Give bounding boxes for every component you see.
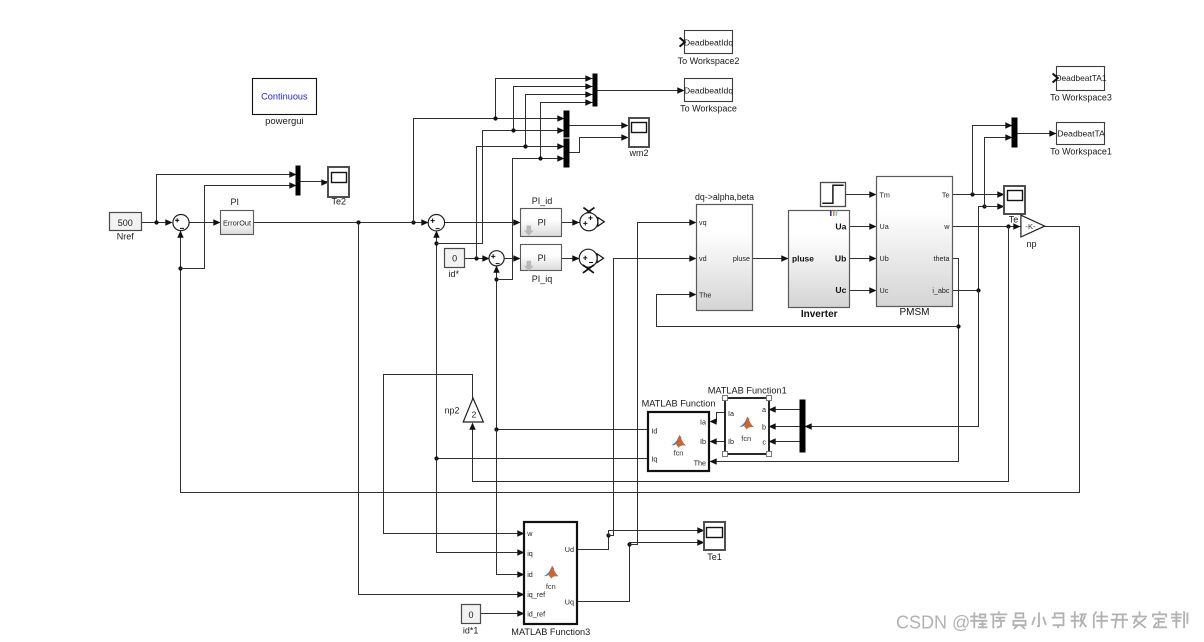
wire Inverter Ua to PMSM <box>850 223 877 229</box>
mux Te2 mux <box>296 166 300 195</box>
wire Inverter Ub to PMSM <box>850 255 877 261</box>
wire Sum1 to ErrorOut <box>189 219 221 225</box>
svg-text:Nref: Nref <box>117 232 135 242</box>
svg-text:0: 0 <box>452 254 457 264</box>
wire dq block pluse to Inverter <box>753 255 789 261</box>
sum Sum1 <box>173 215 189 231</box>
svg-text:id: id <box>527 570 533 579</box>
svg-text:-K-: -K- <box>1025 222 1036 231</box>
svg-text:w: w <box>526 529 533 538</box>
svg-text:Te: Te <box>1009 215 1019 225</box>
svg-text:PI_iq: PI_iq <box>532 274 553 284</box>
svg-text:b: b <box>762 423 766 432</box>
wire theta branch to dq block The input <box>657 291 959 326</box>
junction dot Sum1 feedback branch <box>178 266 182 270</box>
sum Sum5 with unconnected port <box>579 249 603 273</box>
junction dot riser 4 <box>538 156 542 160</box>
wire PI_id to Sum4 <box>562 219 580 225</box>
svg-text:fcn: fcn <box>741 434 751 443</box>
svg-text:MATLAB Function1: MATLAB Function1 <box>708 386 787 396</box>
svg-text:Uq: Uq <box>565 598 574 607</box>
wire Nref to Sum1 <box>142 219 173 225</box>
wire w feedback down to np2 gain input <box>469 227 1008 482</box>
wire Iq branch to speed mux B input 2 <box>437 127 565 243</box>
svg-text:DeadbeatTA: DeadbeatTA <box>1057 129 1105 139</box>
scope Te1 <box>704 522 725 562</box>
junction dot Id net sum branch <box>494 277 498 281</box>
wire Sum2 to PI_id <box>445 219 521 225</box>
block id* constant 0 <box>445 249 465 280</box>
svg-text:iq_ref: iq_ref <box>527 590 545 599</box>
junction dot ErrorOut output branch mux <box>411 220 415 224</box>
wire MATLAB Function1 Ia to MATLAB Function Ia <box>710 413 725 425</box>
block PI_iq <box>521 245 562 284</box>
junction dot i_abc net <box>976 288 980 292</box>
wire np2 gain output to MATLAB Function3 w input <box>384 375 525 537</box>
svg-text:Ia: Ia <box>728 409 734 418</box>
demux i_abc <box>800 400 805 452</box>
wire PMSM w to np gain <box>953 223 1021 229</box>
block To Workspace DeadbeatIdq <box>680 79 737 114</box>
svg-text:vq: vq <box>699 218 707 227</box>
wire Id branch to current mux C input 2 <box>497 155 565 279</box>
svg-text:Id: Id <box>651 427 657 436</box>
svg-text:MATLAB Function3: MATLAB Function3 <box>511 627 590 637</box>
block MATLAB Function3 <box>511 522 590 637</box>
wire ErrorOut output to Sum2 <box>254 219 429 225</box>
svg-text:fcn: fcn <box>546 582 556 591</box>
junction dot Uq net <box>627 542 631 546</box>
svg-text:DeadbeatIdq: DeadbeatIdq <box>684 37 733 47</box>
svg-text:DeadbeatIdq: DeadbeatIdq <box>684 86 733 96</box>
block Step Tm source <box>821 183 846 207</box>
svg-text:id*1: id*1 <box>463 626 479 636</box>
wire Iq feedback net from MATLAB Function <box>433 231 648 459</box>
wire mux inputs riser 2 to DeadbeatIdq mux <box>514 83 593 130</box>
svg-text:Te1: Te1 <box>707 552 722 562</box>
block MATLAB Function1 selected <box>708 386 787 457</box>
wire DeadbeatIdq mux output to To Workspace <box>597 87 685 93</box>
svg-text:Ub: Ub <box>835 253 846 263</box>
svg-text:Iq: Iq <box>651 454 657 463</box>
wire Id feedback net from MATLAB Function to Sum3 <box>493 266 648 430</box>
wire current mux C output to scope wm2 input 2 <box>569 134 629 152</box>
svg-text:a: a <box>762 405 766 414</box>
junction dot riser 3 <box>523 144 527 148</box>
scope Te2 <box>328 167 349 207</box>
svg-text:Ua: Ua <box>880 222 889 231</box>
svg-text:wm2: wm2 <box>628 148 648 158</box>
wire Ud to scope Te1 input 1 <box>609 527 705 535</box>
sum Sum3 <box>489 251 504 266</box>
wire mux inputs riser 4 to DeadbeatIdq mux <box>541 99 593 158</box>
svg-text:Te2: Te2 <box>332 197 347 207</box>
svg-text:pluse: pluse <box>733 254 750 263</box>
svg-text:Uc: Uc <box>880 286 889 295</box>
sum Sum2 <box>428 215 444 231</box>
wire MATLAB Function1 Ib to MATLAB Function Ib <box>710 438 725 444</box>
svg-text:PI: PI <box>538 253 546 263</box>
junction dot theta net <box>956 324 960 328</box>
wire i_abc down to Demux <box>805 291 979 430</box>
wire PI_iq to Sum5 <box>562 255 580 261</box>
mux DeadbeatIdq mux <box>593 74 597 106</box>
wire Step to PMSM Tm <box>846 191 877 197</box>
wire Te2 mux output to scope Te2 <box>300 179 329 185</box>
svg-text:2: 2 <box>472 410 477 420</box>
wire MATLAB Function3 Ud output net <box>577 536 609 550</box>
svg-text:i_abc: i_abc <box>932 286 950 295</box>
svg-text:Ib: Ib <box>700 437 706 446</box>
junction dot i_abc scope branch <box>982 204 986 208</box>
junction dot Iq net upper <box>434 241 438 245</box>
wire mux inputs riser 1 to DeadbeatIdq mux <box>496 75 593 118</box>
junction dot Iq net lower <box>434 456 438 460</box>
svg-text:The: The <box>694 459 706 468</box>
svg-text:id_ref: id_ref <box>527 609 545 618</box>
svg-text:PI: PI <box>538 218 546 228</box>
svg-text:To Workspace1: To Workspace1 <box>1050 147 1112 157</box>
junction dot Id net <box>494 427 498 431</box>
wire Demux output a to MATLAB Function1 <box>769 406 801 412</box>
block MATLAB Function <box>642 399 716 471</box>
mux current mux C <box>564 139 569 167</box>
block dq to alpha beta subsystem <box>695 192 754 311</box>
scope Te <box>1004 186 1025 225</box>
mux DeadbeatTA mux <box>1012 118 1017 147</box>
junction dot ErrorOut output branch iq_ref <box>356 220 360 224</box>
svg-text:0: 0 <box>468 610 473 620</box>
svg-text:CSDN @: CSDN @ <box>896 613 970 633</box>
block Nref constant 500 <box>110 213 142 242</box>
svg-text:fcn: fcn <box>674 449 684 458</box>
svg-text:DeadbeatTA1: DeadbeatTA1 <box>1055 73 1106 83</box>
wire mux inputs riser 3 to DeadbeatIdq mux <box>526 91 593 146</box>
wire Nref branch up to Te2 mux input 1 <box>157 171 297 222</box>
wire id_ref branch up to current mux C input 1 <box>477 143 565 258</box>
block PI_id <box>521 196 562 237</box>
svg-text:c: c <box>762 437 766 446</box>
block To Workspace3 DeadbeatTA1 <box>1050 67 1112 103</box>
wire Demux output b to MATLAB Function1 <box>769 423 801 429</box>
svg-text:MATLAB Function: MATLAB Function <box>642 399 716 409</box>
svg-text:ErrorOut: ErrorOut <box>223 218 251 227</box>
wire np gain output long feedback to Sum1 <box>177 227 1079 493</box>
svg-text:iq: iq <box>527 549 533 558</box>
junction dot id_ref branch <box>474 256 478 260</box>
svg-text:PI: PI <box>231 197 240 207</box>
svg-text:PI_id: PI_id <box>532 196 553 206</box>
junction dot Nref branch <box>154 220 158 224</box>
gain np2 value 2 <box>445 398 484 422</box>
block id*1 constant 0 <box>462 605 481 636</box>
svg-text:To Workspace: To Workspace <box>680 103 737 113</box>
svg-text:np: np <box>1026 239 1036 249</box>
svg-text:pluse: pluse <box>792 253 814 263</box>
junction dot Ud net <box>606 533 610 537</box>
svg-text:To Workspace2: To Workspace2 <box>678 56 740 66</box>
svg-text:Ud: Ud <box>565 545 574 554</box>
mux speed mux B <box>564 111 569 137</box>
wire speed mux B output to scope wm2 input 1 <box>569 122 629 128</box>
block PMSM subsystem <box>877 177 953 318</box>
svg-text:The: The <box>699 291 711 300</box>
wire MATLAB Function3 Uq output net <box>577 545 630 602</box>
wire PMSM theta feedback net <box>710 259 959 465</box>
wire Inverter Uc to PMSM <box>850 287 877 293</box>
block To Workspace1 DeadbeatTA <box>1050 123 1112 157</box>
svg-text:w: w <box>943 222 950 231</box>
svg-text:Continuous: Continuous <box>261 92 308 102</box>
sum Sum4 with unconnected port <box>580 208 604 231</box>
svg-text:Uc: Uc <box>835 285 846 295</box>
svg-text:theta: theta <box>934 254 950 263</box>
wire Sum3 to PI_iq <box>505 255 521 261</box>
block powergui <box>253 79 317 128</box>
block To Workspace2 DeadbeatIdq <box>678 31 740 66</box>
svg-text:PMSM: PMSM <box>900 307 930 318</box>
wire Te branch up to DeadbeatTA mux input 1 <box>973 122 1013 194</box>
svg-text:id*: id* <box>449 269 460 279</box>
wire DeadbeatTA mux output to To Workspace1 <box>1017 130 1057 136</box>
svg-text:Ia: Ia <box>700 417 706 426</box>
wire Iq branch down to MATLAB Function3 iq <box>437 459 525 556</box>
svg-text:Tm: Tm <box>880 190 890 199</box>
junction dot w net <box>1006 224 1010 228</box>
wire Id branch down to MATLAB Function3 id <box>497 430 525 578</box>
wire Demux output c to MATLAB Function1 <box>769 438 801 444</box>
wire feedback branch to Te2 mux input 2 <box>181 182 297 268</box>
wire Uq to scope Te1 input 2 <box>630 539 705 545</box>
wire Ud to dq block vd input <box>609 255 697 535</box>
wire PMSM i_abc net <box>953 207 985 291</box>
wire branch up to speed mux input 1 <box>414 115 565 222</box>
wire PMSM Te to scope <box>953 191 1005 197</box>
wire iq_ref feedback down to MATLAB Function3 <box>359 223 525 598</box>
svg-text:dq->alpha,beta: dq->alpha,beta <box>695 192 754 202</box>
wire id*1 constant to MATLAB Function3 id_ref <box>481 610 525 616</box>
svg-text:Ub: Ub <box>880 254 889 263</box>
svg-text:Ib: Ib <box>728 437 734 446</box>
scope wm2 <box>628 118 649 158</box>
svg-text:vd: vd <box>699 254 707 263</box>
svg-text:Te: Te <box>942 190 950 199</box>
svg-text:Ua: Ua <box>835 221 846 231</box>
svg-text:np2: np2 <box>445 405 460 415</box>
junction dot riser 2 <box>511 128 515 132</box>
wire i_abc branch up to DeadbeatTA mux input 2 <box>985 134 1013 206</box>
wire i_abc branch to scope input 2 <box>985 203 1005 209</box>
block PI ErrorOut <box>221 197 254 234</box>
junction dot Te net <box>970 192 974 196</box>
junction dot riser 1 <box>493 116 497 120</box>
gain np -K- <box>1021 215 1045 249</box>
svg-text:powergui: powergui <box>265 116 304 127</box>
svg-text:500: 500 <box>118 218 133 228</box>
wire id* constant to Sum3 <box>465 255 490 261</box>
svg-text:To Workspace3: To Workspace3 <box>1050 92 1112 102</box>
svg-text:Inverter: Inverter <box>801 309 838 320</box>
block Inverter subsystem <box>789 211 850 320</box>
wire Uq to dq block vq input <box>630 219 697 544</box>
watermark CSDN <box>896 612 1187 632</box>
